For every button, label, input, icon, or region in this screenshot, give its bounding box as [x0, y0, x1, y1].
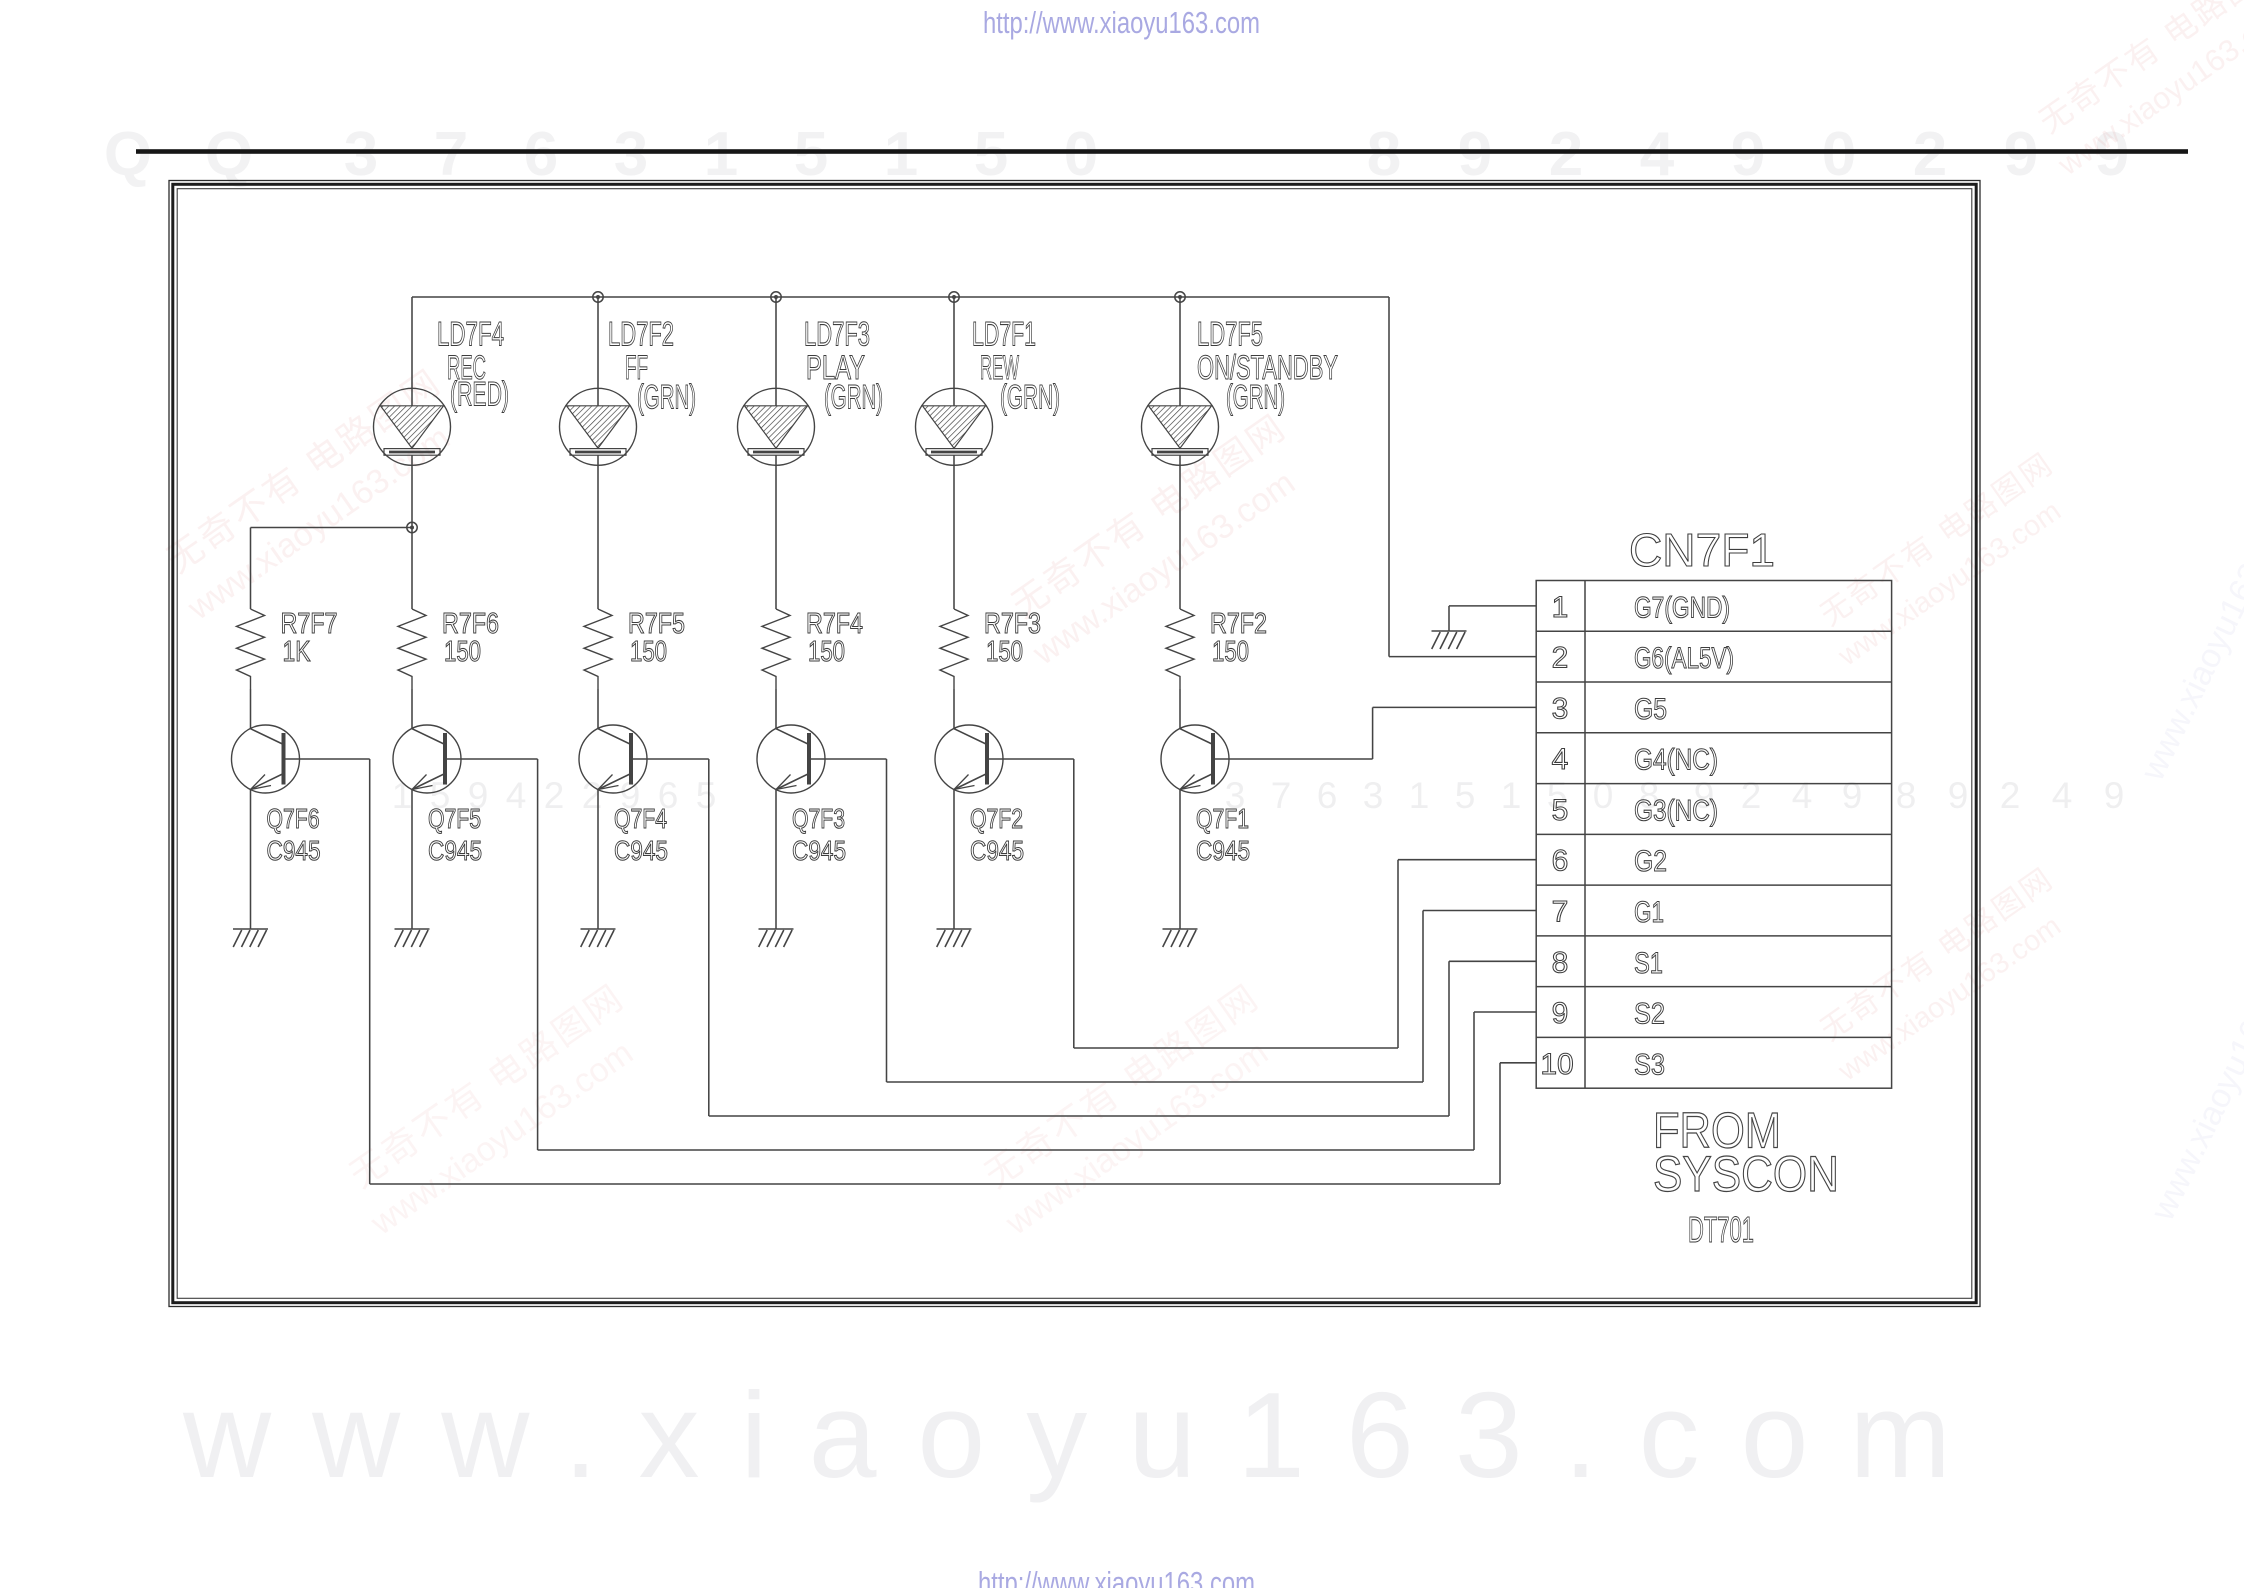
- svg-text:3: 3: [344, 120, 378, 189]
- svg-text:3: 3: [1552, 692, 1569, 725]
- transistor Q7F5 C945: [393, 725, 461, 793]
- svg-text:8: 8: [1552, 946, 1569, 979]
- svg-text:(GRN): (GRN): [824, 379, 883, 417]
- wire: emitter lead Q7F5: [411, 790, 413, 930]
- wire: emitter lead Q7F1: [1179, 790, 1181, 930]
- pin 9 S2: [1552, 997, 1665, 1030]
- wire: collector lead Q7F3: [775, 689, 777, 729]
- svg-text:5: 5: [696, 775, 717, 816]
- svg-text:150: 150: [444, 636, 481, 668]
- ground (connector pin 1): [1432, 631, 1467, 649]
- transistor Q7F2 C945: [935, 725, 1003, 793]
- junction on bus at x=598: [593, 292, 603, 302]
- resistor R7F2 150: [1166, 609, 1194, 689]
- svg-text:C945: C945: [970, 835, 1024, 866]
- svg-text:9: 9: [1552, 997, 1569, 1030]
- svg-text:2: 2: [2000, 775, 2021, 816]
- svg-text:1: 1: [704, 120, 738, 189]
- wire: collector lead Q7F2: [953, 689, 955, 729]
- svg-text:G1: G1: [1634, 896, 1664, 929]
- resistor R7F7 1K: [237, 609, 265, 689]
- svg-text:0: 0: [1064, 120, 1098, 189]
- svg-text:5: 5: [974, 120, 1008, 189]
- svg-text:C945: C945: [1196, 835, 1250, 866]
- svg-text:C945: C945: [267, 835, 321, 866]
- wire: base Q7F6 to pin 10: [284, 759, 1537, 1184]
- wire: base Q7F3 to pin 7: [809, 759, 1536, 1082]
- svg-text:150: 150: [630, 636, 667, 668]
- LED LD7F4 (REC): [374, 297, 451, 609]
- label R7F2: [1210, 608, 1267, 668]
- pin 1 G7(GND): [1552, 591, 1730, 625]
- label Q7F4: [614, 803, 668, 866]
- svg-text:1: 1: [1501, 775, 1522, 816]
- LED LD7F5 (ON/STANDBY): [1142, 297, 1219, 609]
- svg-text:6: 6: [1317, 775, 1338, 816]
- svg-text:6: 6: [1552, 845, 1569, 878]
- label DT701: [1688, 1209, 1754, 1250]
- svg-text:http://www.xiaoyu163.com: http://www.xiaoyu163.com: [983, 5, 1260, 40]
- label LD7F4: [437, 316, 509, 414]
- svg-text:Q7F2: Q7F2: [970, 803, 1023, 834]
- svg-text:150: 150: [986, 636, 1023, 668]
- svg-text:www.xiaoyu163.com: www.xiaoyu163.com: [182, 1367, 1992, 1503]
- pin 4 G4(NC): [1552, 743, 1718, 777]
- svg-text:1: 1: [884, 120, 918, 189]
- wire: AL5V top bus: [412, 296, 1389, 298]
- svg-text:5: 5: [1455, 775, 1476, 816]
- svg-text:(RED): (RED): [450, 375, 509, 413]
- label Q7F5: [428, 803, 482, 866]
- wire: emitter lead Q7F6: [250, 790, 252, 930]
- svg-text:LD7F4: LD7F4: [437, 316, 504, 354]
- svg-text:C945: C945: [614, 835, 668, 866]
- svg-text:2: 2: [1741, 775, 1762, 816]
- pin 6 G2: [1552, 845, 1667, 879]
- transistor Q7F1 C945: [1161, 725, 1229, 793]
- wire: collector lead Q7F5: [411, 689, 413, 729]
- svg-text:G2: G2: [1634, 845, 1667, 878]
- ground: [233, 929, 268, 947]
- connector CN7F1: [1536, 581, 1891, 1089]
- wire: branch node to R7F7: [251, 528, 413, 610]
- svg-text:http://www.xiaoyu163.com: http://www.xiaoyu163.com: [978, 1565, 1255, 1588]
- svg-text:Q: Q: [205, 120, 253, 189]
- ground: [759, 929, 794, 947]
- label R7F6: [442, 608, 499, 668]
- svg-text:0: 0: [1822, 120, 1856, 189]
- wire: base Q7F1 to pin 3 G5: [1213, 707, 1536, 759]
- svg-text:9: 9: [1842, 775, 1863, 816]
- svg-text:(GRN): (GRN): [1226, 379, 1285, 417]
- resistor R7F6 150: [398, 609, 426, 689]
- svg-text:Q7F1: Q7F1: [1196, 803, 1249, 834]
- wire: collector lead Q7F4: [597, 689, 599, 729]
- svg-text:10: 10: [1540, 1048, 1573, 1081]
- svg-text:4: 4: [1552, 743, 1569, 776]
- svg-text:LD7F1: LD7F1: [972, 316, 1036, 354]
- label Q7F2: [970, 803, 1024, 866]
- svg-text:150: 150: [808, 636, 845, 668]
- svg-text:3: 3: [614, 120, 648, 189]
- ground: [395, 929, 430, 947]
- svg-text:7: 7: [434, 120, 468, 189]
- wire: collector lead Q7F1: [1179, 689, 1181, 729]
- svg-text:1K: 1K: [283, 636, 312, 668]
- junction node A: [407, 522, 417, 532]
- svg-text:C945: C945: [792, 835, 846, 866]
- svg-text:7: 7: [1271, 775, 1292, 816]
- ground: [937, 929, 972, 947]
- svg-text:150: 150: [1212, 636, 1249, 668]
- svg-text:C945: C945: [428, 835, 482, 866]
- svg-text:9: 9: [1731, 120, 1765, 189]
- wire: emitter lead Q7F3: [775, 790, 777, 930]
- svg-text:5: 5: [794, 120, 828, 189]
- label Q7F6: [267, 803, 321, 866]
- svg-text:9: 9: [2104, 775, 2125, 816]
- transistor Q7F3 C945: [757, 725, 825, 793]
- svg-text:2: 2: [1913, 120, 1947, 189]
- svg-text:(GRN): (GRN): [1000, 379, 1060, 417]
- svg-text:4: 4: [506, 775, 527, 816]
- label R7F4: [806, 608, 863, 668]
- wire: base Q7F2 to pin 6: [987, 759, 1536, 1048]
- svg-text:1: 1: [1409, 775, 1430, 816]
- svg-text:G6(AL5V): G6(AL5V): [1634, 642, 1734, 675]
- LED LD7F1 (REW): [916, 297, 993, 609]
- svg-text:S1: S1: [1634, 947, 1663, 980]
- svg-text:DT701: DT701: [1688, 1209, 1754, 1250]
- svg-text:2: 2: [1549, 120, 1583, 189]
- junction on bus at x=1180: [1175, 292, 1185, 302]
- LED LD7F2 (FF): [560, 297, 637, 609]
- resistor R7F3 150: [940, 609, 968, 689]
- svg-text:Q7F5: Q7F5: [428, 803, 481, 834]
- svg-text:6: 6: [524, 120, 558, 189]
- svg-text:9: 9: [1948, 775, 1969, 816]
- label FROM SYSCON: [1653, 1103, 1839, 1203]
- svg-text:3: 3: [1363, 775, 1384, 816]
- wire: bus drop to connector pin 2: [1389, 297, 1536, 657]
- wire: emitter lead Q7F2: [953, 790, 955, 930]
- wire: pin 1 to ground: [1449, 606, 1536, 631]
- pin 2 G6(AL5V): [1552, 642, 1734, 676]
- svg-text:8: 8: [1367, 120, 1401, 189]
- svg-text:CN7F1: CN7F1: [1629, 524, 1775, 576]
- svg-text:1: 1: [1552, 591, 1569, 624]
- svg-text:Q: Q: [104, 120, 152, 189]
- label Q7F3: [792, 803, 846, 866]
- ground: [581, 929, 616, 947]
- svg-text:G5: G5: [1634, 693, 1667, 726]
- svg-text:0: 0: [1593, 775, 1614, 816]
- label LD7F5: [1197, 316, 1338, 417]
- label LD7F2: [608, 316, 696, 417]
- label Q7F1: [1196, 803, 1250, 866]
- pin 10 S3: [1540, 1048, 1665, 1082]
- svg-text:2: 2: [582, 775, 603, 816]
- svg-text:7: 7: [1552, 896, 1569, 929]
- svg-text:LD7F3: LD7F3: [804, 316, 870, 354]
- label LD7F1: [972, 316, 1060, 417]
- svg-text:G3(NC): G3(NC): [1634, 794, 1718, 827]
- svg-text:SYSCON: SYSCON: [1653, 1146, 1839, 1202]
- wire: base Q7F5 to pin 9: [445, 759, 1536, 1150]
- pin 5 G3(NC): [1552, 794, 1718, 828]
- svg-text:Q7F3: Q7F3: [792, 803, 845, 834]
- label R7F7: [281, 608, 338, 668]
- svg-text:9: 9: [2004, 120, 2038, 189]
- svg-text:(GRN): (GRN): [637, 379, 696, 417]
- pin 7 G1: [1552, 896, 1664, 930]
- label R7F3: [984, 608, 1041, 668]
- LED LD7F3 (PLAY): [738, 297, 815, 609]
- resistor R7F4 150: [762, 609, 790, 689]
- junction on bus at x=954: [949, 292, 959, 302]
- svg-text:2: 2: [1552, 642, 1569, 675]
- svg-text:8: 8: [1896, 775, 1917, 816]
- junction on bus at x=776: [771, 292, 781, 302]
- label R7F5: [628, 608, 685, 668]
- svg-text:Q7F6: Q7F6: [267, 803, 320, 834]
- resistor R7F5 150: [584, 609, 612, 689]
- label CN7F1: [1629, 524, 1775, 576]
- svg-text:2: 2: [544, 775, 565, 816]
- transistor Q7F4 C945: [579, 725, 647, 793]
- transistor Q7F6 C945: [232, 725, 300, 793]
- wire: collector lead Q7F6: [250, 689, 252, 729]
- svg-text:5: 5: [1552, 794, 1569, 827]
- pin 8 S1: [1552, 946, 1663, 980]
- svg-text:4: 4: [2052, 775, 2073, 816]
- wire: base Q7F4 to pin 8: [631, 759, 1536, 1116]
- pin 3 G5: [1552, 692, 1667, 726]
- svg-text:LD7F5: LD7F5: [1197, 316, 1263, 354]
- svg-text:LD7F2: LD7F2: [608, 316, 674, 354]
- svg-text:S2: S2: [1634, 998, 1665, 1031]
- svg-text:Q7F4: Q7F4: [614, 803, 667, 834]
- svg-text:4: 4: [1792, 775, 1813, 816]
- svg-text:S3: S3: [1634, 1048, 1665, 1081]
- label LD7F3: [804, 316, 883, 417]
- svg-text:G7(GND): G7(GND): [1634, 591, 1730, 624]
- svg-text:G4(NC): G4(NC): [1634, 744, 1718, 777]
- svg-text:4: 4: [1640, 120, 1675, 189]
- svg-text:9: 9: [1458, 120, 1492, 189]
- wire: emitter lead Q7F4: [597, 790, 599, 930]
- ground: [1163, 929, 1198, 947]
